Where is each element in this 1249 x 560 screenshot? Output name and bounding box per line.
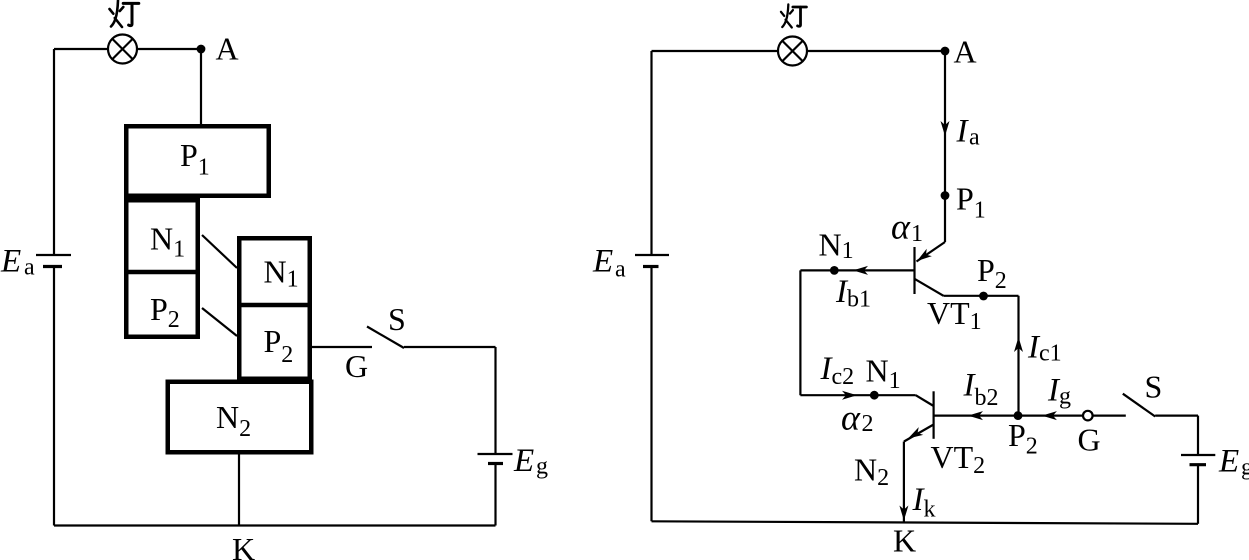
svg-text:E: E <box>0 244 21 280</box>
svg-text:g: g <box>1241 455 1249 481</box>
svg-text:S: S <box>1145 368 1163 404</box>
svg-text:K: K <box>232 531 255 560</box>
svg-text:α: α <box>891 207 911 247</box>
svg-text:S: S <box>388 301 406 337</box>
svg-text:G: G <box>1078 422 1101 458</box>
svg-text:A: A <box>954 34 977 70</box>
svg-text:a: a <box>615 257 626 283</box>
svg-text:E: E <box>592 244 613 280</box>
svg-text:g: g <box>536 454 548 480</box>
svg-text:α: α <box>841 398 861 438</box>
svg-text:G: G <box>345 348 368 384</box>
svg-text:2: 2 <box>862 411 874 437</box>
svg-text:E: E <box>513 443 534 479</box>
svg-text:a: a <box>24 255 35 281</box>
svg-text:1: 1 <box>911 221 923 247</box>
svg-text:E: E <box>1218 444 1239 480</box>
svg-text:I: I <box>956 114 970 150</box>
svg-text:a: a <box>969 125 980 151</box>
svg-text:K: K <box>893 523 916 559</box>
svg-text:A: A <box>216 31 239 67</box>
